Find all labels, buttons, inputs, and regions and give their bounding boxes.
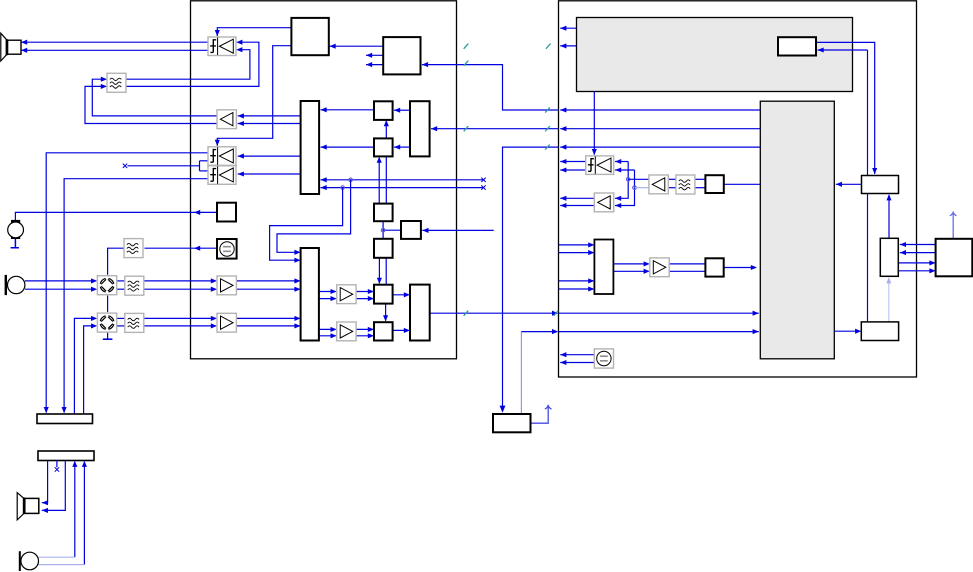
wire TX input 4 to R3 (559, 288, 594, 290)
wire mic2 horizontal b (light) (39, 564, 85, 566)
wire connector to speaker2 a (42, 461, 48, 503)
wire stub from B upper (366, 54, 383, 56)
isolated slash a (464, 44, 469, 49)
wire V to RF ASIC (836, 183, 862, 185)
wire RF ASIC to M1 (gap) (431, 128, 559, 130)
wire split vertical b to amp2 (615, 170, 635, 206)
wire B to A (330, 45, 384, 47)
antenna switch X (880, 238, 898, 276)
wire F1 output to system connector (46, 153, 208, 413)
wire M1 to P1 (394, 109, 410, 111)
wire clock to PA ctrl (light vertical) (520, 332, 522, 414)
regulator H (217, 239, 237, 259)
wire amp I to codec N a (237, 280, 299, 282)
wire codec K to amp E in2 (238, 123, 301, 125)
converter-amp F1 (208, 147, 236, 166)
wire memory to RX converter D1 (593, 92, 595, 155)
TX amp T2 (337, 322, 356, 341)
wire test point to F pair (128, 165, 200, 167)
wire filter2 to amp I a (144, 280, 216, 282)
mixer MX1 (97, 276, 116, 295)
vibra driver G (217, 203, 236, 222)
wire bus tap to N in2 (270, 188, 343, 261)
wire W feedback vertical upper (867, 50, 869, 176)
RX amp A2 (594, 193, 613, 212)
TX amp T1 (337, 285, 356, 304)
wire regulator2 out b (560, 362, 594, 364)
wire P3 to P2 (378, 158, 380, 204)
wire P4 to P5 (378, 258, 380, 284)
wire mic2 horizontal a (light) (39, 556, 75, 558)
wire W feedback vertical lower (867, 194, 869, 322)
wire N to TX amp2 b (319, 335, 335, 337)
wire clock to RF ASIC (inside) (559, 331, 759, 333)
wire M2 to RF ASIC (inside) (559, 312, 759, 314)
logic box P6 (374, 322, 393, 340)
TX chain box BR2 (705, 258, 723, 276)
LO filter D2 (124, 239, 143, 258)
RX chain box BR (705, 175, 723, 193)
wire earpiece bottom (21, 49, 208, 51)
bus-width slash (464, 126, 469, 131)
bus wire to K upper (321, 179, 484, 181)
wire bracket to F1 (200, 160, 209, 162)
wire P2 to K (321, 146, 375, 148)
bottom connector X2 (38, 451, 94, 461)
wire M1 to P2 (394, 146, 410, 148)
vibra motor B1 (8, 220, 24, 248)
wire filter2 to amp I b (144, 288, 216, 290)
bus-width slash (464, 311, 469, 316)
mic filter F2a (125, 276, 144, 295)
bus end cross upper (481, 178, 485, 182)
wire W to PLL in (818, 49, 868, 51)
wire X to Y a (898, 262, 934, 264)
RF/power section container (559, 1, 917, 377)
bus-width slash (545, 145, 550, 150)
wire mixer2 to filter3 b (117, 325, 125, 327)
wire mic to mixer1 in2 (25, 288, 96, 290)
wire R3 to TX amp a (613, 263, 648, 265)
wire mixer2 to filter3 a (117, 317, 125, 319)
earpiece converter-amp C (208, 37, 236, 56)
wire TX amp2 to P6 a (356, 328, 373, 330)
wire X to V (888, 195, 890, 238)
wire filter D to C lower-right (126, 50, 250, 79)
junction on bus upper (349, 178, 353, 182)
wire TX amp to box b (669, 270, 706, 272)
wire mic2 to connector b (83, 462, 85, 565)
wire RF ASIC aux (inside) (560, 146, 760, 148)
wire P6 to M2 (393, 329, 409, 331)
RF ASIC block (gray) (760, 101, 834, 359)
codec interface K (301, 101, 320, 194)
wire amp J to codec N a (237, 317, 299, 319)
wire to D1 in b (615, 169, 635, 171)
wire P5 to P4 (385, 258, 387, 285)
wire RX filter-box a (695, 178, 706, 180)
PLL box inside memory block (778, 37, 816, 55)
RX filter D (107, 73, 126, 92)
wire RF ASIC to clock box (503, 147, 559, 411)
controller block B (383, 37, 420, 74)
wire Y to X b (900, 252, 936, 254)
wire TX amp1 to P5 b (356, 298, 373, 300)
bus-width slash (554, 311, 559, 316)
wire RX box to RF ASIC (724, 183, 761, 185)
wire memory stub lower (560, 45, 576, 47)
junction RX dist b (633, 186, 637, 190)
wire X to Y b (898, 270, 934, 272)
regulator H2 (594, 349, 613, 368)
wire VCO H to filter D2 (145, 247, 218, 249)
wire N to TX amp1 a (319, 291, 335, 293)
wire mic to mixer1 in1 (25, 280, 96, 282)
wire codec K to F2 (238, 173, 301, 175)
LO amp J (217, 313, 236, 332)
wire DSP A to PA driver F1 (217, 46, 291, 146)
wire N to TX amp1 b (319, 298, 335, 300)
mixer MX2 (97, 313, 116, 332)
TX interface R3 (594, 240, 613, 295)
wire DSP A to earpiece amp C (217, 28, 291, 36)
wire P1 to K (321, 109, 375, 111)
wire clock to RF ASIC entry (521, 331, 556, 333)
audio/baseband section container (191, 1, 457, 359)
wire RF ASIC to W (834, 330, 860, 332)
wire to D1 in a (615, 161, 628, 163)
wire vibra drive (15, 212, 217, 220)
wire bracket vertical (199, 161, 201, 171)
converter-amp F2 (208, 166, 236, 185)
wire connector to speaker2 b (42, 461, 66, 511)
wire mixer1 to filter2 b (117, 288, 125, 290)
wire Y to X a (900, 244, 936, 246)
wire dist to RX chain amp a (628, 178, 649, 180)
wire LO to mixer1 (108, 248, 124, 275)
interface block M2 (410, 285, 430, 341)
wire N to TX amp2 a (319, 328, 335, 330)
wire stub with cross (56, 461, 58, 468)
wire TX box to RF ASIC (724, 267, 756, 269)
wire TX amp to box a (669, 263, 706, 265)
wire bracket to F2 (200, 170, 209, 172)
wire amp J to codec N b (237, 325, 299, 327)
wire split vertical a to amp2 (615, 162, 628, 199)
wire clock box output stub (531, 406, 549, 424)
TX amp A4 (650, 258, 669, 277)
wire regulator2 out a (560, 354, 594, 356)
wire RF ASIC to B (gap segment) (422, 65, 559, 110)
wire memory stub upper (560, 27, 576, 29)
wire filter3 to amp J b (144, 325, 216, 327)
wire R3 to TX amp b (613, 270, 648, 272)
wire RX amp E to filter D upper (92, 79, 217, 116)
wire dist to RX chain amp b (light) (635, 187, 649, 189)
wire filter3 to amp J a (144, 317, 216, 319)
wire RX filter-box b (695, 187, 706, 189)
wire mixer2 to ground (107, 333, 109, 339)
wire P2 to P1 (385, 121, 387, 138)
wire TX amp1 to P5 a (356, 291, 373, 293)
wire TX input 1 to R3 (559, 244, 594, 246)
wire RF ASIC to M1 (inside RF) (560, 128, 760, 130)
logic box P2 (374, 138, 393, 156)
wire P2 to P3 (385, 156, 387, 203)
earpiece speaker SP1 (1, 33, 21, 61)
LO amp I (217, 276, 236, 295)
wire to M2b from RF side (422, 229, 493, 231)
antenna filter Y (936, 239, 973, 276)
logic box P3 (374, 204, 393, 222)
wire codec K to F1 (238, 155, 301, 157)
wire RX amp2 out b (560, 205, 594, 207)
wire earpiece top (21, 41, 208, 43)
wire D1 out a (560, 161, 586, 163)
junction RX dist a (626, 178, 630, 182)
bus-width slash (545, 126, 550, 131)
codec interface N (301, 248, 319, 341)
memory block (gray) (577, 18, 853, 92)
logic box P1 (374, 101, 393, 120)
wire stub from B lower (366, 64, 383, 66)
bus end cross lower (481, 185, 485, 189)
RX chain filter FR (676, 175, 695, 194)
wire TX amp2 to P6 b (356, 335, 373, 337)
system connector X1 (37, 414, 93, 424)
wire bus tap to N in1 (277, 180, 351, 253)
wire RX amp2 out a (560, 197, 594, 199)
logic box P5 (374, 285, 393, 304)
wire F2 output to system connector (64, 179, 208, 413)
wire M2b to P column (383, 229, 401, 231)
RX amp E (217, 110, 236, 129)
RX chain amp A3 (649, 175, 668, 194)
wire mic2 to connector a (74, 462, 76, 557)
wire TX input 2 to R3 (559, 252, 594, 254)
wire RX amp-filter b (668, 187, 676, 189)
bus-width slash (545, 107, 550, 112)
wire P5 to P6 (385, 304, 387, 321)
clock box (493, 414, 531, 432)
headset microphone MIC2 (19, 551, 39, 571)
wire W to X (light) (888, 278, 890, 322)
bus-width slash (464, 61, 469, 66)
handsfree speaker SP2 (17, 493, 39, 520)
junction P column (381, 228, 385, 232)
RX converter-amp D1 (586, 156, 614, 175)
logic box P4 (374, 239, 393, 258)
wire mixer1 to mixer2 LO (107, 296, 109, 313)
wire RX amp E to filter D lower (85, 86, 217, 123)
PA control V (862, 176, 899, 194)
wire codec K to amp E in1 (238, 115, 301, 117)
junction on bus lower (341, 186, 345, 190)
no-connect under connector (55, 467, 59, 471)
bus wire to K lower (321, 187, 484, 189)
ground under mixer2 (103, 338, 113, 340)
wire P3 to P4 (382, 221, 384, 239)
power detect W (861, 322, 898, 341)
DSP block A (291, 18, 328, 55)
wire RF ASIC to B (inside RF container) (560, 109, 760, 111)
wire connector to mixer2 in2 (84, 326, 96, 414)
wire mixer1 to filter2 a (117, 280, 125, 282)
wire filter D to C upper-right (126, 42, 259, 86)
wire D1 out b (560, 169, 586, 171)
wire M2 to RF ASIC (left+gap) (430, 312, 557, 314)
wire connector to mixer2 in1 (74, 318, 95, 414)
wire TX input 3 to R3 (559, 280, 594, 282)
interface block M1 (410, 101, 430, 156)
wire P5 to M2 (393, 294, 409, 296)
logic box M2b (401, 221, 421, 239)
wire PLL out to V (816, 42, 875, 174)
wire antenna stub from Y (light) (952, 212, 954, 239)
mic filter F3a (125, 313, 144, 332)
open arrowhead on Y stub (950, 212, 957, 216)
wire RX amp-filter a (668, 178, 676, 180)
no-connect cross at F input (123, 164, 127, 168)
wire amp I to codec N b (237, 288, 299, 290)
microphone MIC1 (5, 275, 25, 295)
open arrowhead on clock stub (545, 405, 552, 409)
isolated slash b (546, 44, 551, 49)
